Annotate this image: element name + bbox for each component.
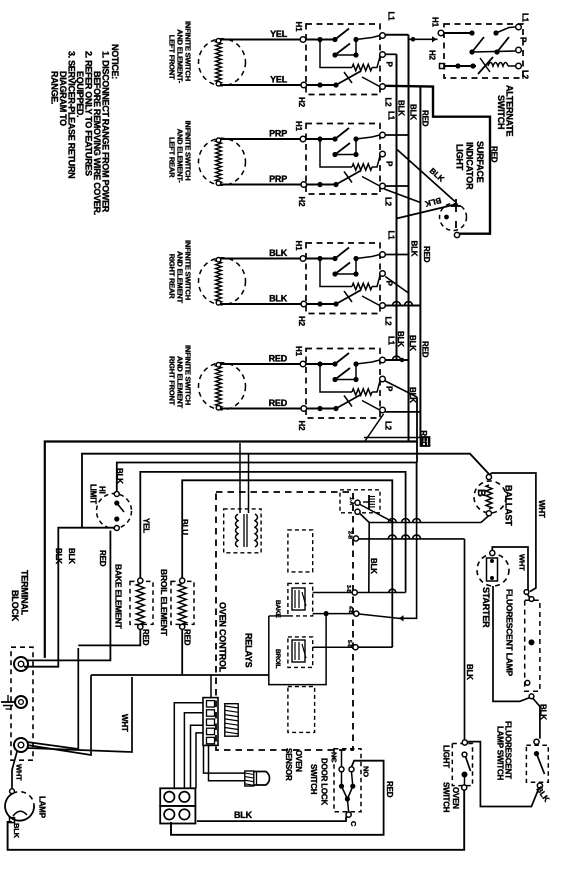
svg-text:LIMIT: LIMIT (89, 484, 98, 504)
svg-text:OVEN: OVEN (451, 787, 460, 809)
svg-text:RED: RED (98, 550, 107, 567)
svg-text:SURFACE: SURFACE (475, 141, 485, 183)
svg-text:RELAYS: RELAYS (244, 633, 254, 668)
wire element to H2 (YEL) (221, 84, 301, 86)
terminal 5 oven control (354, 611, 359, 616)
svg-text:H2: H2 (297, 97, 306, 108)
broil relay dashed box (288, 637, 313, 668)
transformer dashed box (224, 509, 261, 553)
svg-text:RIGHT FRONT: RIGHT FRONT (168, 356, 177, 406)
svg-text:L2: L2 (384, 197, 393, 207)
svg-text:BLK: BLK (369, 558, 378, 574)
wire terminal3 to oven light switch (hops) (359, 538, 465, 540)
transformer primary stubs (239, 443, 241, 513)
svg-text:OVEN: OVEN (294, 750, 303, 772)
cycling resistor (320, 364, 352, 392)
fluorescent lamp switch contact (534, 751, 539, 756)
switch dashed box (306, 124, 380, 195)
svg-text:LAMP: LAMP (38, 796, 47, 819)
wire contact to L1 (356, 255, 380, 259)
svg-text:L1: L1 (387, 111, 396, 121)
alt switch arm 1 (472, 37, 484, 52)
fluorescent lamp switch terminal top (534, 739, 539, 744)
svg-text:YEL: YEL (142, 518, 151, 533)
terminal L1 (380, 252, 386, 258)
infinite switch and element - LEFT REAR: element dashed circle (199, 138, 246, 185)
terminal L2 (alternate switch) (516, 63, 522, 69)
alt switch top contacts (444, 32, 474, 34)
terminal L2 (380, 303, 386, 309)
switch arm 2 (335, 368, 350, 380)
svg-text:1-A: 1-A (348, 497, 354, 505)
wire ballast top WHT to lamp pin (489, 473, 536, 592)
alternate switch dashed box (444, 24, 523, 78)
switch contacts bottom row (307, 84, 338, 86)
svg-text:2-B: 2-B (347, 531, 353, 539)
svg-text:SWITCH: SWITCH (496, 95, 506, 129)
alt switch middle contacts (469, 49, 474, 54)
bus BLK vertical x417 mid (416, 397, 418, 463)
wire BLU bus to relay row3 (391, 645, 393, 647)
svg-text:INDICATOR: INDICATOR (465, 142, 475, 190)
notice text block (50, 44, 121, 215)
switch contacts top row (306, 363, 333, 365)
bake element dashed box (130, 581, 153, 624)
wire terminal2 to ballast (hops) (360, 514, 369, 523)
infinite switch and element - RIGHT REAR: element dashed circle (199, 258, 246, 305)
terminal H1 (300, 256, 306, 262)
terminal P (alternate switch) (516, 47, 522, 53)
wire fluorescent lamp switch to oven light switch (468, 742, 539, 807)
svg-text:STARTER: STARTER (481, 587, 491, 628)
wire broil relay to terminal 6 (313, 646, 353, 648)
svg-text:RED: RED (183, 629, 192, 646)
terminal L2 (380, 183, 386, 189)
switch arm 2 (335, 263, 350, 275)
secondary dashed box (340, 490, 380, 513)
terminal H2 (301, 182, 307, 188)
svg-text:SWITCH: SWITCH (442, 782, 451, 813)
svg-text:LIGHT: LIGHT (455, 144, 465, 171)
bake element terminals and coil (138, 578, 143, 583)
empty relay position dashed box 2 (288, 687, 315, 733)
svg-text:LEFT FRONT: LEFT FRONT (168, 35, 177, 80)
wire terminal1 diagonal (360, 505, 394, 523)
svg-text:BLU: BLU (180, 519, 189, 535)
svg-text:L1: L1 (521, 13, 530, 23)
wire arm to L2 (362, 296, 380, 306)
svg-text:H2: H2 (297, 421, 306, 432)
wire L1 block3 to bus A (385, 254, 408, 256)
oven sensor bulb (254, 772, 270, 786)
terminal P (380, 151, 386, 157)
wire bake YEL (y471.9) (140, 472, 405, 590)
wire L1 block4 to bus A (385, 359, 408, 361)
switch arm 3 (with break mark) (336, 171, 361, 185)
alt switch arm X (478, 57, 493, 74)
svg-text:LIGHT: LIGHT (442, 745, 451, 768)
broil relay internals (292, 640, 305, 662)
wires header to connector blocks (174, 703, 203, 789)
svg-text:P: P (385, 62, 394, 68)
svg-text:H1: H1 (431, 17, 440, 28)
ballast dashed circle (474, 481, 506, 513)
svg-text:RED: RED (269, 398, 288, 408)
wire L2 block2 to bus A (385, 185, 409, 187)
svg-text:BLK: BLK (408, 335, 417, 351)
fluorescent lamp pins bottom (525, 680, 530, 685)
wire relay row 2 (313, 613, 354, 615)
terminal L2 (380, 407, 386, 413)
bake relay dashed box (288, 583, 313, 616)
terminal 3 (14, 738, 28, 752)
oven light switch contacts (462, 752, 467, 757)
svg-text:H1: H1 (294, 346, 303, 357)
hi-limit terminals and contacts (114, 492, 119, 497)
svg-text:BLK: BLK (54, 548, 63, 564)
connector block upper (160, 788, 195, 806)
wire WHT terminal3 to oven lamp (12, 752, 17, 789)
switch contacts top row (306, 258, 333, 260)
svg-text:RED: RED (422, 246, 431, 263)
wire starter bottom to lamp bottom pin (493, 586, 530, 701)
infinite switch and element - RIGHT FRONT: element dashed circle (199, 363, 246, 410)
svg-text:TERMINAL: TERMINAL (20, 570, 30, 616)
fluorescent lamp switch terminal bottom (537, 783, 542, 788)
shield symbol (368, 495, 370, 509)
switch arm 1 (335, 128, 349, 139)
svg-text:LEFT REAR: LEFT REAR (168, 137, 177, 178)
wire to alternate switch H1 with arrow (409, 38, 438, 40)
switch contacts top row (306, 39, 333, 41)
wire broil terminal to bus (358, 646, 392, 648)
wire element to H2 (BLK) (221, 303, 301, 305)
terminal P (380, 52, 386, 58)
switch dashed box (306, 24, 380, 95)
terminal P (380, 376, 386, 382)
wire BLK v2 from terminal block (24, 528, 114, 667)
svg-text:RIGHT REAR: RIGHT REAR (168, 254, 177, 299)
terminal L1 (380, 357, 386, 363)
switch contacts bottom row (307, 303, 338, 305)
terminal 3 oven control (353, 536, 358, 541)
svg-text:H1: H1 (294, 22, 303, 33)
wire bake bottom RED (78, 629, 140, 645)
svg-text:BALLAST: BALLAST (504, 485, 514, 526)
svg-text:RANGE.: RANGE. (50, 71, 60, 104)
wire y437.5 stub (364, 437, 420, 439)
cycling resistor (320, 40, 352, 68)
terminal 2 with ground (15, 696, 27, 708)
svg-text:H1: H1 (294, 241, 303, 252)
terminal H2 (301, 82, 307, 88)
svg-text:SWITCH: SWITCH (309, 764, 318, 795)
svg-text:NC: NC (330, 752, 339, 763)
fluorescent lamp dot (529, 639, 535, 645)
switch dashed box (306, 243, 380, 314)
oven sensor wires (204, 745, 245, 773)
switch arm 3 (with break mark) (336, 290, 361, 304)
element heater coil (216, 41, 222, 84)
svg-text:RED: RED (141, 629, 150, 646)
ballast terminals (486, 474, 491, 479)
svg-text:H1: H1 (294, 121, 303, 132)
alt switch bottom row (445, 65, 477, 67)
terminal L1 (alternate switch) (516, 24, 522, 30)
oven lamp circle (5, 794, 34, 821)
empty relay position dashed box 1 (288, 530, 313, 572)
svg-text:PRP: PRP (269, 129, 287, 139)
terminal H1 (300, 361, 306, 367)
terminal H1 (alternate switch) (438, 30, 444, 36)
terminal H1 (300, 37, 306, 43)
wire YEL bus to relay row1 (405, 590, 407, 593)
bus C RED vertical x420.4 (419, 86, 421, 437)
wire lower connector to y836 (170, 824, 172, 835)
oven lamp filament (13, 811, 27, 816)
wire BLK bus x416.6 to relay row2 with arrow (398, 521, 417, 618)
svg-text:BROIL: BROIL (274, 649, 281, 668)
fluorescent lamp switch dashed box (526, 745, 548, 782)
svg-text:H2: H2 (297, 197, 306, 208)
wire contact to L1 (356, 360, 380, 364)
wire element to H1 (PRP) (221, 138, 300, 140)
wire broil BLU (y480.3) (182, 480, 392, 647)
transformer coils (236, 514, 239, 547)
svg-text:RED: RED (490, 146, 499, 163)
starter internals (487, 558, 498, 581)
wire starter top WHT to lamp pin (492, 547, 530, 598)
svg-text:RED: RED (421, 341, 430, 358)
svg-text:BLK: BLK (397, 100, 406, 116)
wire L2 block4 diagonal (365, 414, 384, 441)
svg-text:DOOR LOCK: DOOR LOCK (320, 758, 329, 806)
fluorescent lamp pins top (524, 590, 529, 595)
element heater coil (216, 140, 222, 183)
element heater coil (216, 365, 222, 408)
terminal H2 (301, 406, 307, 412)
switch contacts bottom row (307, 408, 338, 410)
cycling resistor (320, 259, 352, 287)
alt switch coil (488, 63, 508, 67)
switch arm 1 (335, 353, 349, 364)
wire NC up into oven control (341, 750, 343, 767)
wire lamp to fluorescent lamp switch BLK (533, 699, 540, 739)
wire C BLK to connector (197, 817, 346, 822)
fluorescent lamp dashed box (525, 600, 540, 691)
svg-text:BLK: BLK (409, 104, 418, 120)
svg-text:BLK: BLK (410, 241, 419, 257)
switch contacts top row (306, 138, 333, 140)
terminal P (380, 271, 386, 277)
svg-text:H2: H2 (297, 316, 306, 327)
terminal L1 (380, 33, 386, 39)
wire element to H1 (RED) (221, 363, 300, 365)
svg-text:WHT: WHT (518, 554, 527, 571)
switch arm 3 (with break mark) (336, 71, 361, 85)
svg-text:WHT: WHT (120, 714, 129, 732)
wire from terminal1 to hi-limit RED (26, 531, 110, 661)
wire P block1 to bus B (385, 53, 396, 55)
wire L2 block4 to bus C (385, 411, 420, 413)
indicator lamp electrodes (455, 199, 457, 212)
svg-text:LAMP SWITCH: LAMP SWITCH (496, 726, 505, 781)
bus B BLK vertical x396.5 (396, 54, 398, 360)
switch dashed box (306, 349, 380, 419)
infinite switch and element - LEFT FRONT: element dashed circle (199, 39, 246, 86)
svg-text:YEL: YEL (270, 75, 288, 85)
wire L2 block2 diagonal to bus C (384, 189, 420, 203)
wire BLK terminal2 down to relay row1 (368, 523, 370, 593)
pin header connector (203, 698, 218, 746)
svg-text:L1: L1 (387, 336, 396, 346)
svg-text:SENSOR: SENSOR (284, 748, 293, 781)
svg-text:L2: L2 (521, 70, 530, 80)
wire L1 block2 to bus A (385, 134, 408, 136)
switch arm 3 (with break mark) (336, 395, 361, 409)
svg-text:P: P (519, 37, 528, 43)
svg-text:BLK: BLK (115, 468, 124, 484)
starter dashed circle (477, 554, 509, 586)
svg-text:OVEN CONTROL: OVEN CONTROL (218, 602, 228, 673)
terminal H1 (300, 136, 306, 142)
oven control dashed box (216, 492, 353, 750)
element heater coil (216, 260, 222, 303)
terminal 1 (14, 657, 28, 671)
wire broil bottom RED (181, 629, 183, 675)
terminal 2 oven control (355, 509, 360, 514)
svg-text:BLK: BLK (539, 704, 548, 720)
wire P block3 diagonal to bus A (385, 277, 408, 294)
wire arm to L2 (362, 401, 380, 411)
svg-text:L1: L1 (387, 231, 396, 241)
oven lamp terminals (10, 789, 15, 794)
svg-text:NOTICE:: NOTICE: (110, 44, 120, 79)
svg-text:HI: HI (98, 486, 107, 494)
wire WHT header stub (210, 675, 212, 698)
surface indicator light dashed circle (440, 204, 467, 231)
svg-text:L1: L1 (387, 12, 396, 22)
wire NO bypass to connector (171, 761, 384, 835)
terminal 4 oven control (bake relay) (352, 590, 357, 595)
oven light switch terminal bottom (462, 785, 467, 790)
wire element to H1 (BLK) (221, 258, 300, 260)
svg-text:WHT: WHT (15, 764, 24, 781)
hatched connector block (225, 704, 238, 737)
ballast coil (486, 485, 492, 509)
wire contact to L1 (356, 36, 380, 40)
svg-text:BROIL ELEMENT: BROIL ELEMENT (159, 569, 169, 637)
wire oven light switch bottom to neutral (8, 790, 465, 850)
wire contact to L1 (356, 135, 380, 139)
oven light switch terminal top (462, 740, 467, 745)
svg-text:RED: RED (385, 781, 394, 798)
svg-text:BLOCK: BLOCK (10, 590, 20, 622)
wire hi-limit top BLK (y462) (117, 463, 417, 522)
svg-text:BLK: BLK (12, 823, 21, 839)
terminal H2 (alternate switch) (440, 64, 445, 69)
svg-text:P: P (385, 386, 394, 392)
switch arm 2 (335, 143, 350, 155)
svg-text:PRP: PRP (269, 174, 287, 184)
ground symbol (1, 701, 15, 703)
svg-text:P: P (385, 161, 394, 167)
svg-text:C: C (349, 821, 358, 827)
switch arm 2 (335, 44, 350, 56)
terminal 1 oven control (355, 500, 360, 505)
wire arm to L2 (362, 77, 380, 87)
plug connector symbol (421, 437, 430, 446)
svg-text:FLUORESCENT LAMP: FLUORESCENT LAMP (505, 589, 515, 677)
terminal H2 (301, 301, 307, 307)
wire WHT horizontal y675 (91, 674, 269, 676)
wire element to H2 (RED) (221, 408, 301, 410)
svg-text:RED: RED (421, 110, 430, 127)
switch arm 1 (335, 29, 349, 40)
wire BLK down to oven light switch (464, 539, 466, 740)
oven sensor hatched block (245, 771, 254, 786)
wire arm to L2 (362, 177, 380, 187)
wire RED main L1 feed (y443) (45, 442, 417, 658)
svg-text:BLK: BLK (408, 387, 417, 403)
wire bake relay to terminal 4 (313, 592, 352, 594)
wire element to H1 (YEL) (221, 39, 300, 41)
svg-text:BLK: BLK (465, 664, 474, 680)
svg-text:BLK: BLK (269, 294, 288, 304)
wire L2 block1 thick RED to surface light (385, 86, 490, 234)
svg-text:BAKE ELEMENT: BAKE ELEMENT (114, 564, 124, 630)
bake relay internals (292, 588, 305, 610)
wires fanning from terminal 3 (27, 648, 78, 749)
wire hi-limit bottom feed (y453.7) to ballast (82, 454, 489, 529)
svg-text:BLK: BLK (67, 548, 76, 564)
svg-text:WHT: WHT (537, 500, 546, 518)
wire P block4 diagonal (385, 381, 417, 397)
terminal block dashed box (11, 647, 33, 760)
alt switch arm 2 (497, 37, 509, 52)
switch contacts bottom row (307, 184, 338, 186)
starter terminal top (490, 550, 495, 555)
terminal 6 oven control (broil relay) (353, 645, 358, 650)
svg-text:H2: H2 (428, 50, 437, 61)
oven light switch dashed box (452, 744, 472, 786)
svg-text:RED: RED (269, 354, 288, 364)
cycling resistor (320, 139, 352, 167)
terminal L1 (380, 132, 386, 138)
wire L1 block1 to bus A (385, 34, 408, 36)
terminal (indicator bottom) (454, 232, 459, 237)
bus A BLK vertical x408.5 (408, 35, 410, 441)
svg-text:NO: NO (362, 766, 371, 777)
svg-text:L2: L2 (384, 98, 393, 108)
connector block lower (160, 806, 195, 824)
wire L2 block3 to bus C (385, 305, 421, 307)
diagonal BLK wire to surface light 1 (397, 149, 456, 202)
door lock terminals (339, 767, 344, 772)
svg-text:BLK: BLK (396, 331, 405, 347)
switch arm 1 (335, 248, 349, 259)
terminal L2 (380, 84, 386, 90)
diagonal BLK wire to surface light 2 (397, 205, 456, 219)
door lock switch dashed box (334, 749, 361, 812)
broil element dashed box (171, 581, 194, 624)
wire element to H2 (PRP) (221, 184, 301, 186)
svg-text:YEL: YEL (270, 29, 288, 39)
svg-text:BLK: BLK (234, 810, 253, 820)
svg-text:BLK: BLK (269, 248, 288, 258)
broil element terminals and coil (180, 578, 185, 583)
svg-text:L2: L2 (384, 421, 393, 431)
